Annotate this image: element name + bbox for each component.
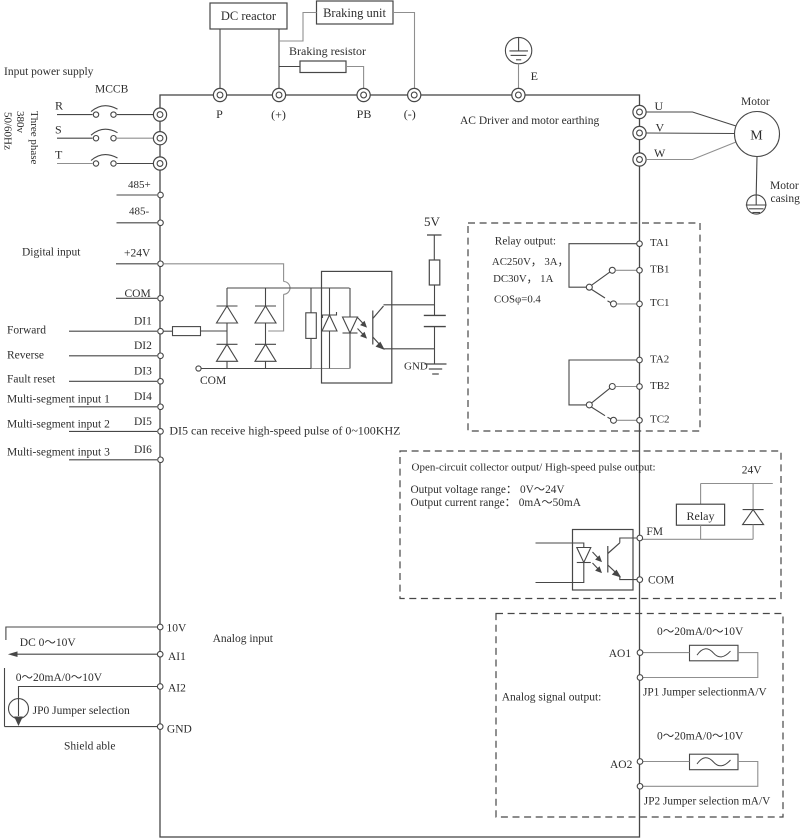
svg-text:DI5 can receive high-speed pu: DI5 can receive high-speed pulse of 0~10…	[169, 424, 400, 438]
relay K1 moving arm	[592, 272, 610, 285]
svg-text:(-): (-)	[404, 107, 416, 121]
transistor U2 photo-transistor	[608, 543, 620, 577]
wire COM stub	[116, 297, 157, 299]
terminal P	[213, 88, 226, 101]
wire DI1 to resistor	[163, 330, 172, 332]
svg-text:M: M	[750, 129, 763, 144]
terminal COM	[158, 296, 164, 302]
terminal AI1	[157, 651, 163, 657]
terminal U	[633, 105, 646, 118]
meter AO2 output selector	[690, 754, 739, 770]
wire bridge bottom rail	[201, 368, 311, 370]
terminal GND	[157, 724, 163, 730]
svg-text:TB2: TB2	[650, 380, 670, 392]
wire right leg middle	[265, 323, 267, 344]
terminal E	[512, 88, 525, 101]
svg-text:10V: 10V	[167, 623, 188, 635]
svg-text:Multi-segment input 1: Multi-segment input 1	[7, 394, 110, 406]
terminal FM	[637, 535, 643, 541]
svg-text:DC30V， 1A: DC30V， 1A	[493, 273, 553, 285]
svg-text:Multi-segment input 3: Multi-segment input 3	[7, 447, 110, 459]
wire zener top	[329, 288, 331, 315]
wire AI2 feed	[19, 687, 158, 699]
relay K1 pivot contact	[586, 284, 592, 290]
ground GND	[425, 364, 447, 374]
wire GND	[5, 726, 158, 728]
wire DI6 input	[69, 459, 157, 461]
protective earth symbol E	[505, 37, 531, 63]
wire selector loop AO1	[643, 653, 758, 678]
svg-text:Braking resistor: Braking resistor	[289, 44, 366, 58]
svg-text:AI1: AI1	[168, 651, 186, 663]
terminal COM (bridge common)	[196, 366, 201, 371]
terminal TB1	[637, 268, 643, 274]
wire 5V to resistor	[433, 235, 435, 260]
wire hop +24V over rail	[284, 282, 290, 295]
wire DC reactor to terminal (+)	[278, 29, 280, 89]
LED U2 emitter diode	[577, 548, 591, 563]
svg-text:380v: 380v	[14, 111, 26, 134]
terminal TA2	[637, 357, 643, 363]
wire contact to TB2	[615, 386, 636, 388]
wire contact to TC1	[617, 303, 637, 305]
svg-text:(+): (+)	[271, 108, 286, 122]
terminal AI2	[157, 684, 163, 690]
diode bridge D1 (left top)	[217, 306, 238, 323]
light arrow 2	[358, 329, 367, 338]
meter AO1 output selector	[690, 645, 739, 661]
svg-text:TC2: TC2	[650, 414, 670, 426]
relay K3 coil	[676, 504, 724, 525]
wire collector to 5V node	[384, 304, 435, 306]
wire resistor to bridge left leg	[201, 330, 228, 332]
svg-text:Three phase: Three phase	[28, 111, 40, 165]
svg-text:U: U	[655, 99, 664, 113]
wire FM rail	[643, 538, 754, 540]
terminal T	[153, 157, 166, 170]
terminal AO1	[637, 650, 643, 656]
terminal PB	[357, 88, 370, 101]
svg-text:DI4: DI4	[134, 391, 152, 403]
motor casing earth symbol	[746, 195, 767, 214]
light arrow 4	[593, 563, 602, 572]
svg-text:MCCB: MCCB	[95, 84, 129, 96]
terminal COM output	[637, 577, 643, 583]
wire contact to TC2	[617, 419, 637, 421]
resistor DI1 input	[173, 327, 201, 336]
wire DI3 input	[69, 380, 157, 382]
motor M	[735, 112, 780, 157]
svg-text:casing: casing	[771, 193, 800, 205]
wire relay coil to FM rail	[700, 525, 702, 539]
terminal (-)	[408, 88, 421, 101]
svg-text:GND: GND	[167, 724, 192, 736]
op-amp U2 optocoupler box	[573, 530, 634, 591]
svg-text:PB: PB	[357, 107, 372, 121]
relay K2 NO contact	[609, 384, 615, 390]
wire bottom rail into optocoupler	[311, 368, 350, 370]
wire node to capacitor	[434, 305, 436, 316]
svg-text:Digital input: Digital input	[22, 247, 81, 259]
terminal +24V	[158, 261, 164, 267]
wire TA2 to contact arm	[569, 360, 637, 405]
diode bridge D4 (right bottom)	[255, 344, 276, 361]
wire U2 LED cathode	[536, 563, 584, 583]
wire resistor to collector node	[434, 285, 436, 305]
wire 24V rail	[701, 483, 773, 485]
svg-text:Shield able: Shield able	[64, 741, 115, 753]
open-collector output section box	[400, 451, 781, 599]
svg-text:T: T	[55, 148, 63, 162]
wire (+) bus to braking resistor	[279, 66, 300, 68]
wire DI5 input	[69, 430, 157, 432]
relay K2 NC tick	[608, 417, 612, 419]
svg-text:W: W	[654, 146, 666, 160]
wire AO1 to selector	[643, 652, 690, 654]
analog signal output section box	[496, 614, 783, 818]
wire contact to TB1	[615, 269, 636, 271]
svg-text:Input power supply: Input power supply	[4, 66, 94, 78]
svg-text:0～20mA/0～10V: 0～20mA/0～10V	[657, 626, 744, 638]
svg-text:DI3: DI3	[134, 366, 152, 378]
wire V to motor	[646, 132, 734, 135]
wire shield	[4, 668, 6, 727]
wire TA1 to contact arm	[569, 244, 637, 288]
op-amp U1 optocoupler box	[322, 271, 392, 383]
wire +24V down to bridge right leg	[268, 294, 283, 331]
svg-text:0～20mA/0～10V: 0～20mA/0～10V	[16, 672, 103, 684]
wire W to motor	[646, 142, 736, 160]
power rail 5V	[427, 234, 442, 236]
relay output section box	[468, 223, 700, 431]
relay K2 NC contact	[611, 417, 617, 423]
svg-text:TB1: TB1	[650, 264, 670, 276]
wire rail to relay coil	[700, 484, 702, 505]
svg-text:+24V: +24V	[124, 247, 151, 259]
svg-text:Analog signal output:: Analog signal output:	[502, 692, 602, 704]
svg-text:S: S	[55, 123, 62, 137]
terminal (+)	[272, 88, 285, 101]
wire +24V stub	[116, 263, 157, 265]
wire left leg lower	[226, 361, 228, 368]
braking unit	[317, 1, 394, 24]
wire emitter to GND node	[384, 348, 435, 350]
terminal DI4	[158, 404, 164, 410]
wire selector loop AO2	[643, 762, 758, 787]
diode bridge D2 (right top)	[255, 306, 276, 323]
svg-text:COM: COM	[200, 375, 226, 387]
wire U to motor	[646, 112, 736, 126]
terminal W	[633, 153, 646, 166]
svg-text:TA1: TA1	[650, 237, 669, 249]
wire AO2 to selector	[643, 761, 690, 763]
svg-text:TC1: TC1	[650, 297, 670, 309]
terminal TB2	[637, 384, 643, 390]
svg-text:Multi-segment input 2: Multi-segment input 2	[7, 418, 110, 430]
wire U2 collector to FM	[620, 538, 637, 543]
wire braking unit to (+) bus	[279, 13, 317, 42]
svg-text:R: R	[55, 99, 63, 113]
wire DI2 input	[69, 355, 157, 357]
transistor U1 photo-transistor	[373, 306, 384, 349]
svg-text:50/60Hz: 50/60Hz	[2, 112, 14, 150]
svg-text:AI2: AI2	[168, 683, 186, 695]
svg-text:Open-circuit collector output: Open-circuit collector output/ High-spee…	[412, 462, 656, 474]
svg-text:5V: 5V	[424, 214, 441, 229]
wire to ground	[434, 349, 436, 364]
MCCB breaker pole T	[57, 155, 153, 167]
wire motor to casing earth	[755, 157, 758, 196]
svg-text:GND: GND	[404, 361, 428, 373]
wire DI4 input	[69, 406, 157, 408]
terminal DI6	[158, 457, 164, 463]
resistor pull-up 5V	[429, 260, 440, 285]
wire U2 emitter to COM	[620, 576, 637, 579]
wire +24V to bridge	[163, 264, 283, 282]
terminal AO2 return	[637, 784, 643, 790]
diode zener DZ	[322, 312, 337, 331]
relay K1 NC tick	[608, 301, 612, 303]
svg-text:AO1: AO1	[609, 648, 632, 660]
wire rail to diode	[752, 484, 754, 510]
terminal AO1 return	[637, 675, 643, 681]
diode D5 flyback	[743, 510, 764, 525]
terminal TC1	[637, 301, 643, 307]
svg-text:COSφ=0.4: COSφ=0.4	[494, 293, 541, 305]
diode bridge D3 (left bottom)	[217, 344, 238, 361]
MCCB breaker pole R	[57, 106, 153, 118]
LED U1 emitter diode	[343, 317, 358, 333]
svg-text:Forward: Forward	[7, 325, 46, 337]
svg-text:FM: FM	[646, 526, 663, 538]
wire DC reactor to terminal P	[219, 29, 221, 89]
svg-text:Analog input: Analog input	[213, 633, 274, 645]
wire left leg upper	[226, 288, 228, 306]
svg-text:JP2 Jumper selection mA/V: JP2 Jumper selection mA/V	[644, 796, 771, 808]
svg-text:AC250V， 3A，: AC250V， 3A，	[492, 256, 568, 268]
braking resistor RB	[300, 61, 346, 73]
wire DI1 input	[69, 330, 157, 332]
jumper JP0 source symbol	[9, 699, 29, 727]
svg-text:0～20mA/0～10V: 0～20mA/0～10V	[657, 731, 744, 743]
resistor R-limit (vertical)	[306, 313, 317, 339]
relay K1 NC contact	[611, 301, 617, 307]
wire right leg lower	[265, 361, 267, 368]
wire right leg upper	[265, 288, 267, 306]
svg-text:JP1 Jumper selectionmA/V: JP1 Jumper selectionmA/V	[643, 687, 767, 699]
svg-text:V: V	[656, 121, 665, 135]
wire 485-	[117, 222, 158, 224]
relay K2 pivot contact	[586, 402, 592, 408]
terminal 485-	[158, 220, 164, 226]
terminal DI2	[158, 353, 164, 359]
terminal DI5	[158, 429, 164, 435]
svg-text:Motor: Motor	[741, 96, 770, 108]
arrow AI1 external source	[8, 651, 157, 657]
svg-text:24V: 24V	[742, 465, 763, 477]
wire 10V feed	[6, 627, 157, 640]
svg-text:485-: 485-	[129, 206, 150, 218]
terminal R	[153, 108, 166, 121]
svg-text:Output voltage range： 0V～24V: Output voltage range： 0V～24V	[411, 484, 566, 496]
svg-text:485+: 485+	[128, 179, 151, 191]
svg-text:Relay output:: Relay output:	[495, 236, 556, 248]
svg-text:DI6: DI6	[134, 444, 152, 456]
svg-text:DI2: DI2	[134, 340, 152, 352]
wire zener bottom	[329, 331, 331, 369]
svg-text:AO2: AO2	[610, 759, 633, 771]
wire rail to resistor top	[310, 288, 312, 313]
wire U2 LED anode	[536, 543, 584, 548]
wire left leg middle	[226, 323, 228, 344]
wire 485+	[117, 194, 158, 196]
svg-text:Relay: Relay	[687, 509, 715, 523]
wire LED top	[349, 288, 351, 317]
svg-text:JP0 Jumper selection: JP0 Jumper selection	[33, 705, 130, 717]
wire braking unit to terminal (-)	[393, 13, 415, 89]
light arrow 1	[358, 318, 367, 327]
terminal DI3	[158, 379, 164, 385]
svg-text:COM: COM	[648, 575, 674, 587]
svg-text:Fault reset: Fault reset	[7, 373, 56, 385]
wire capacitor to emitter node	[434, 327, 436, 349]
terminal V	[633, 126, 646, 139]
wire diode to FM rail	[752, 525, 754, 540]
svg-text:E: E	[531, 69, 538, 83]
terminal 10V	[157, 624, 163, 630]
MCCB breaker pole S	[57, 129, 153, 141]
terminal TA1	[637, 241, 643, 247]
svg-text:Braking unit: Braking unit	[323, 6, 386, 20]
terminal DI1	[158, 328, 164, 334]
svg-text:Reverse: Reverse	[7, 350, 44, 362]
wire LED bottom	[349, 333, 351, 369]
svg-text:Motor: Motor	[770, 180, 799, 192]
wire bridge top rail	[227, 287, 311, 289]
wire rail into optocoupler	[311, 287, 350, 289]
svg-text:P: P	[216, 107, 223, 121]
svg-text:Output current range： 0mA～50m: Output current range： 0mA～50mA	[411, 497, 582, 509]
light arrow 3	[593, 552, 602, 561]
wire earth symbol to terminal E	[518, 64, 520, 89]
svg-text:DI1: DI1	[134, 316, 152, 328]
relay K2 moving arm	[592, 388, 610, 403]
terminal 485+	[158, 192, 164, 198]
AC drive enclosure outline	[160, 95, 640, 837]
capacitor C1	[424, 315, 446, 326]
terminal TC2	[637, 418, 643, 424]
svg-text:TA2: TA2	[650, 353, 669, 365]
svg-text:DC 0～10V: DC 0～10V	[20, 637, 77, 649]
wire resistor bottom to rail	[310, 338, 312, 368]
svg-text:AC Driver and motor earthing: AC Driver and motor earthing	[460, 115, 599, 127]
svg-text:DC reactor: DC reactor	[221, 9, 277, 23]
terminal AO2	[637, 759, 643, 765]
wire braking resistor to terminal PB	[346, 67, 364, 89]
terminal S	[153, 132, 166, 145]
relay K1 NO contact	[609, 267, 615, 273]
DC reactor L1	[210, 3, 287, 29]
svg-text:DI5: DI5	[134, 416, 152, 428]
